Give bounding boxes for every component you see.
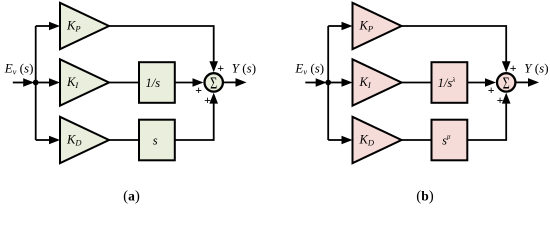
wire: KI output to integrator block (b)	[402, 82, 432, 84]
summing junction sigma (b)	[497, 73, 515, 93]
svg-text:1/s: 1/s	[146, 76, 161, 90]
svg-text:(b): (b)	[416, 189, 434, 205]
svg-text:+: +	[497, 93, 504, 107]
block: differentiator s^mu (b)	[432, 120, 468, 161]
wire: KD output to differentiator block (a)	[109, 139, 139, 141]
summing junction sigma (a)	[205, 73, 223, 93]
svg-text:+: +	[217, 61, 224, 75]
node: input junction dot (b)	[325, 80, 331, 86]
svg-text:Y (s): Y (s)	[232, 61, 256, 76]
svg-text:Σ: Σ	[503, 75, 510, 93]
gain block KI (b)	[353, 59, 402, 105]
wire: differentiator output across and up to summer bottom (b)	[467, 93, 510, 140]
svg-text:+: +	[204, 93, 211, 107]
block: differentiator s (a)	[139, 120, 175, 161]
gain block KD (b)	[353, 117, 402, 163]
block: integrator 1/s (a)	[139, 62, 175, 103]
wire: input Ev(s) into branch node (a)	[13, 78, 34, 87]
svg-text:s: s	[153, 133, 158, 147]
wire: summer output to Y(s) arrow (b)	[516, 78, 539, 87]
svg-text:+: +	[510, 61, 517, 75]
wire: branch node to KI input (b)	[328, 78, 352, 87]
block: integrator 1/s^lambda (b)	[432, 62, 468, 103]
gain block KI (a)	[60, 59, 109, 105]
wire: summer output to Y(s) arrow (a)	[224, 78, 247, 87]
wire: KP output across and down to summer top (a)	[109, 26, 218, 72]
wire: KP output across and down to summer top (b)	[402, 26, 511, 72]
svg-text:Ev (s): Ev (s)	[4, 61, 34, 77]
svg-text:Σ: Σ	[210, 75, 217, 93]
wire: integrator output to summer left (a)	[175, 78, 204, 87]
gain block KP (a)	[60, 3, 109, 49]
wire: branch node to KD input (b)	[328, 136, 352, 145]
gain block KD (a)	[60, 117, 109, 163]
svg-text:Y (s): Y (s)	[524, 61, 548, 76]
svg-text:(a): (a)	[123, 189, 140, 205]
wire: branch vertical from KP row to KD row (b)	[327, 26, 329, 140]
wire: branch node to KP input (b)	[328, 22, 352, 31]
node: input junction dot (a)	[33, 80, 39, 86]
svg-text:+: +	[195, 83, 202, 97]
wire: input Ev(s) into branch node (b)	[305, 78, 326, 87]
wire: branch node to KP input (a)	[36, 22, 60, 31]
wire: branch node to KI input (a)	[36, 78, 60, 87]
wire: branch node to KD input (a)	[36, 136, 60, 145]
wire: KD output to differentiator block (b)	[402, 139, 432, 141]
wire: differentiator output across and up to summer bottom (a)	[175, 93, 218, 140]
wire: KI output to integrator block (a)	[109, 82, 139, 84]
svg-text:+: +	[488, 83, 495, 97]
wire: integrator output to summer left (b)	[467, 78, 496, 87]
wire: branch vertical from KP row to KD row (a)	[35, 26, 37, 140]
gain block KP (b)	[353, 3, 402, 49]
svg-text:Ev (s): Ev (s)	[294, 61, 324, 77]
